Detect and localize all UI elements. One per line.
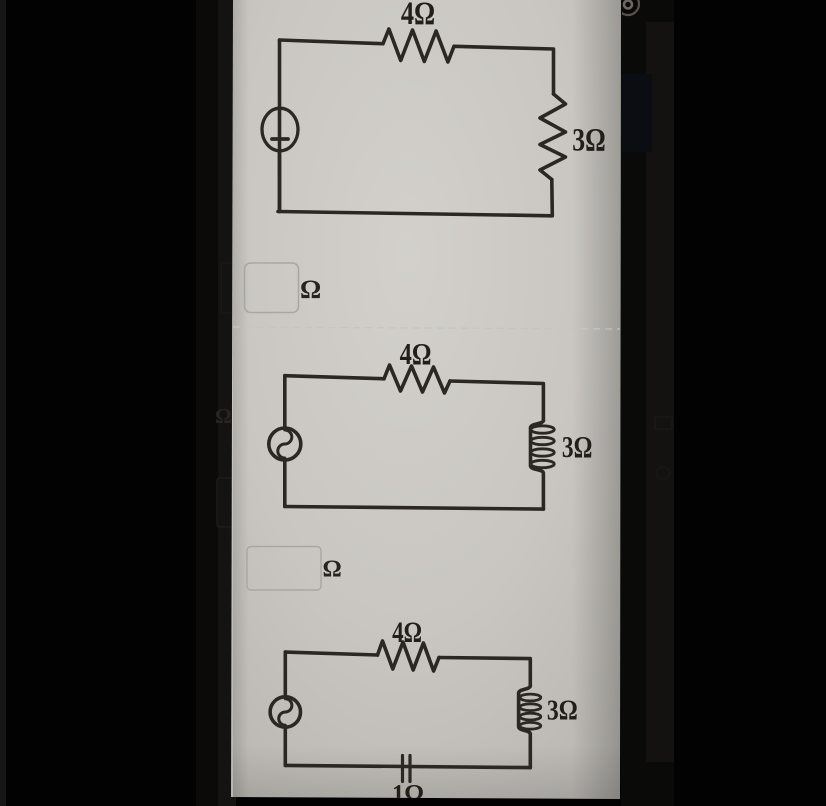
wire: left vertical top segment [283,652,287,697]
wire: right lower + bottom [278,180,552,216]
resistor R1 4ohm zigzag [383,29,454,62]
resistor R2 3ohm vertical zigzag [540,94,566,180]
answer box 2 [247,547,321,591]
svg-text:3Ω: 3Ω [572,123,605,159]
inductor L1 body jog [531,421,544,510]
S3 sine squiggle [279,699,292,725]
wire: top right segment [454,46,554,94]
inductor L2 body jog [519,686,531,768]
faint dashed separator [233,327,620,329]
S2 sine squiggle [278,430,292,458]
svg-text:4Ω: 4Ω [400,337,432,371]
wire: top with resistor leads [285,376,384,379]
svg-text:4Ω: 4Ω [401,0,435,32]
AC source S2 circle [269,428,301,460]
inductor L2 coil loops [520,694,541,701]
wire: top left [285,652,377,655]
answer box 1 [245,263,299,313]
svg-text:3Ω: 3Ω [562,430,593,464]
svg-text:4Ω: 4Ω [392,615,422,648]
resistor R3 4ohm zigzag [384,365,450,393]
wire: bottom circuit 2 [285,507,544,510]
ghost box in dark strip [217,478,239,527]
wire: left vertical bottom segment [283,727,287,765]
photo bright area [231,0,621,799]
wire: left vertical through source [278,40,282,212]
svg-text:Ω: Ω [300,274,321,304]
wire: left vertical top segment [283,376,287,428]
capacitor C1 plates [401,756,404,782]
wire: top right [439,658,530,687]
V1 plus crossbar [272,137,288,141]
svg-text:3Ω: 3Ω [547,693,578,726]
wire: left vertical bottom segment [283,460,287,507]
wire: top left segment [280,40,384,44]
AC source S3 circle [270,697,300,727]
camera ring icon top right [617,0,639,15]
resistor R4 4ohm zigzag [378,641,440,671]
svg-text:Ω: Ω [323,557,342,583]
wire: bottom circuit 3 [285,765,530,767]
backdrop right dark strips [621,0,674,806]
ghost letters right strip [655,417,672,429]
svg-text:Ω: Ω [215,404,232,428]
wire: top right [450,381,543,421]
voltage source V1 circle [262,108,298,151]
wire: bottom left vertical joint [278,150,282,212]
inductor L1 coil loops [531,426,555,433]
